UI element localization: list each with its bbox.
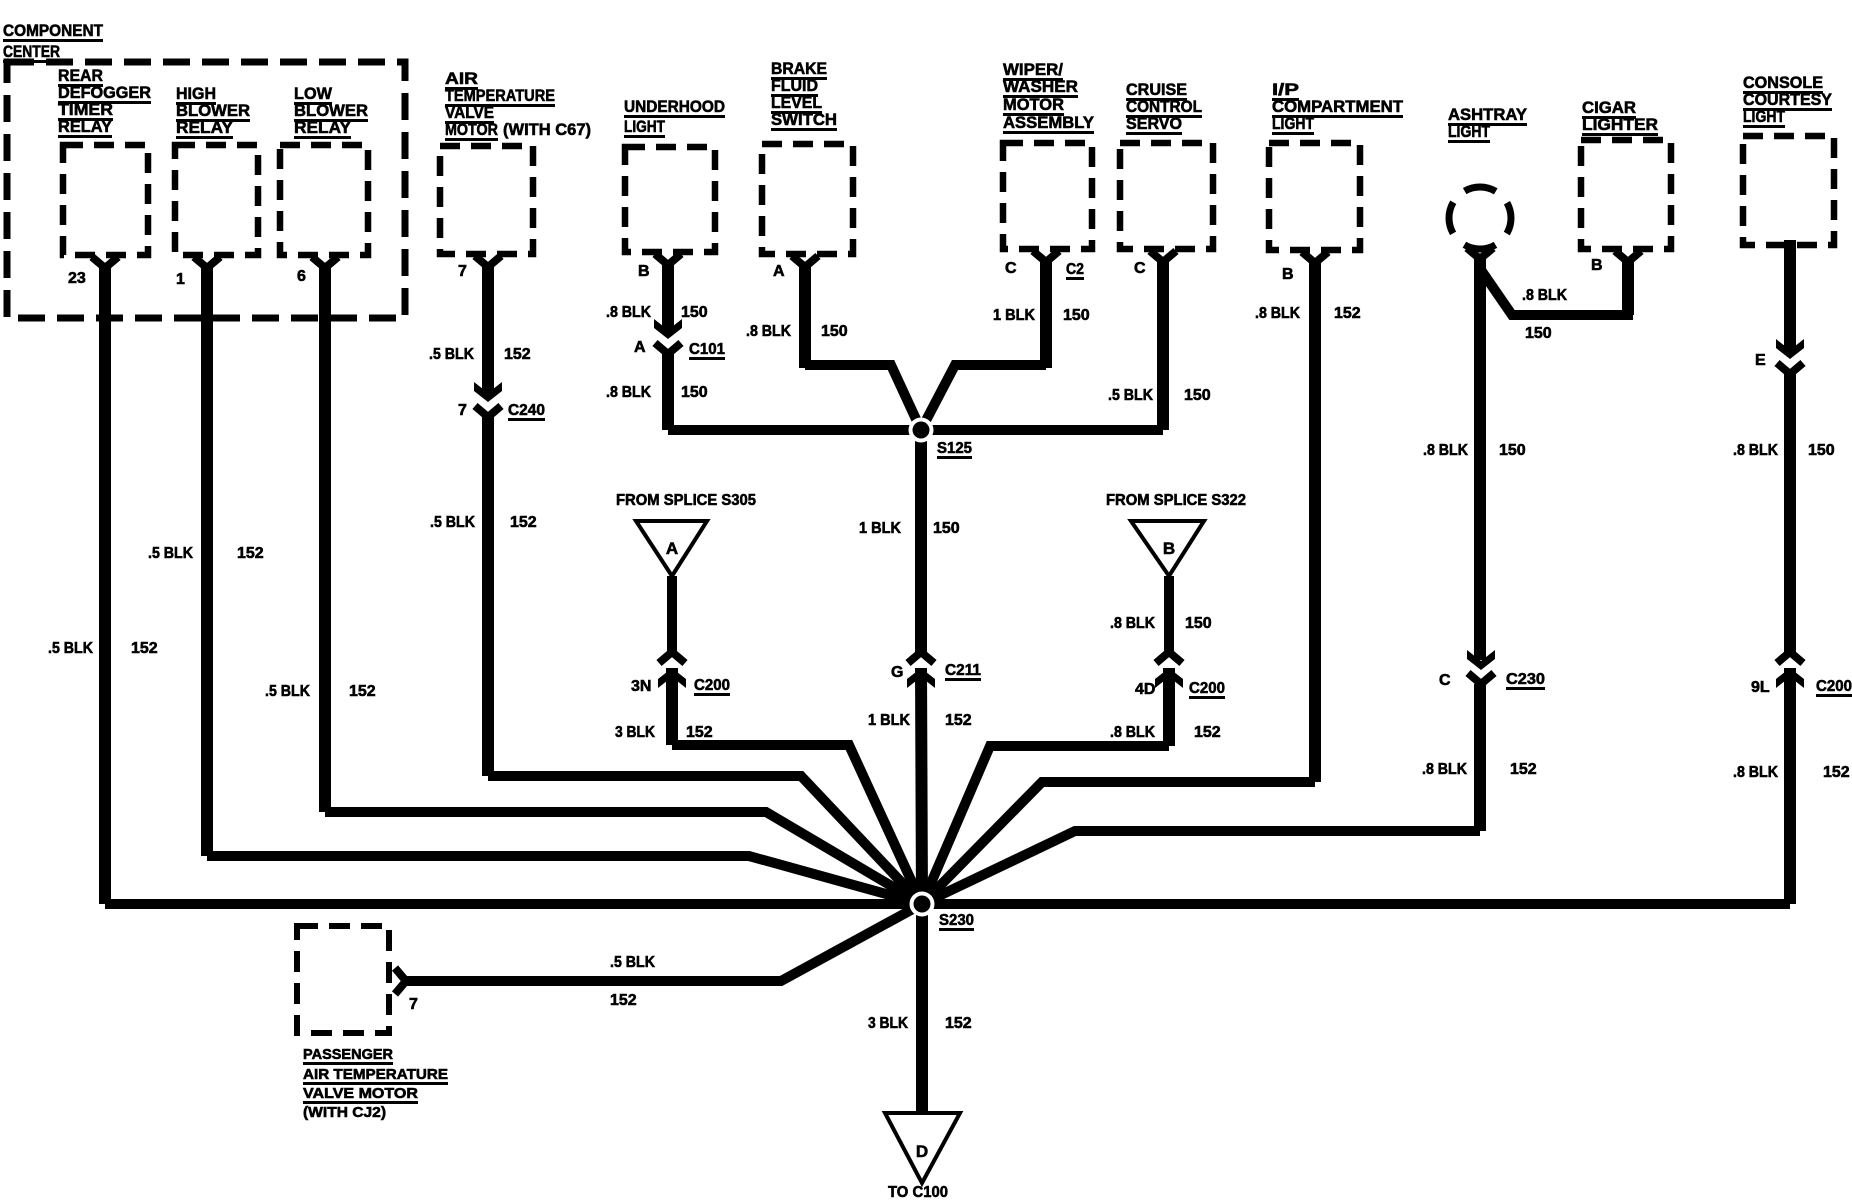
svg-text:.8 BLK: .8 BLK — [1110, 615, 1155, 632]
component BRAKE FLUID LEVEL SWITCH — [762, 59, 853, 254]
svg-text:.5 BLK: .5 BLK — [1108, 387, 1153, 404]
svg-text:152: 152 — [1823, 764, 1850, 781]
svg-text:B: B — [1591, 257, 1603, 274]
component I/P COMPARTMENT LIGHT — [1269, 80, 1404, 250]
pin 7 passenger — [395, 968, 418, 1013]
svg-text:C: C — [1134, 260, 1146, 277]
svg-text:.5 BLK: .5 BLK — [610, 954, 655, 971]
svg-text:150: 150 — [821, 323, 848, 340]
label .5 BLK 152 air temp upper — [429, 346, 531, 363]
component LOW BLOWER RELAY — [280, 84, 368, 255]
pin B cigar — [1591, 251, 1641, 274]
svg-text:152: 152 — [349, 683, 376, 700]
svg-text:MOTOR: MOTOR — [445, 120, 498, 139]
component CONSOLE COURTESY LIGHT — [1743, 73, 1834, 245]
svg-text:.8 BLK: .8 BLK — [1733, 442, 1778, 459]
wire rear defogger relay pin 23 to S230 (.5 BLK 152) — [105, 263, 922, 904]
pin 1 — [176, 257, 220, 288]
pin C cruise — [1134, 251, 1176, 277]
svg-text:E: E — [1755, 352, 1766, 369]
svg-text:.8 BLK: .8 BLK — [1733, 764, 1778, 781]
wire low blower relay pin 6 to S230 (.5 BLK 152) — [325, 263, 922, 904]
component ASHTRAY LIGHT (bulb symbol) — [1448, 105, 1528, 249]
pin A brake — [773, 256, 818, 280]
svg-text:150: 150 — [1525, 325, 1552, 342]
svg-text:WASHER: WASHER — [1003, 77, 1078, 96]
wire C230 to S230 (.8 BLK 152) — [922, 684, 1480, 904]
svg-text:CENTER: CENTER — [3, 42, 60, 61]
pin C wiper with connector C2 — [1005, 251, 1084, 280]
svg-text:SWITCH: SWITCH — [771, 110, 837, 129]
svg-text:LIGHT: LIGHT — [1743, 107, 1786, 126]
svg-text:RELAY: RELAY — [294, 118, 352, 137]
wire i/p compartment light pin B to S230 (.8 BLK 152) — [922, 258, 1315, 904]
svg-text:3 BLK: 3 BLK — [868, 1015, 908, 1032]
svg-text:LIGHTER: LIGHTER — [1582, 115, 1658, 134]
svg-text:7: 7 — [409, 996, 418, 1013]
wire underhood light pin B to C101 (.8 BLK 150) — [662, 260, 674, 331]
triangle B FROM SPLICE S322 — [1106, 492, 1246, 576]
wire cigar lighter pin B to ashtray wire (.8 BLK 150) — [1481, 258, 1633, 315]
wire C200 3N to S230 (3 BLK 152) — [672, 668, 922, 904]
label .8 BLK 150 cigar elbow — [1522, 287, 1567, 342]
svg-text:1: 1 — [176, 271, 185, 288]
svg-text:.8 BLK: .8 BLK — [606, 304, 651, 321]
svg-text:.8 BLK: .8 BLK — [1255, 305, 1300, 322]
svg-text:B: B — [1163, 539, 1175, 558]
svg-text:152: 152 — [237, 545, 264, 562]
svg-text:C200: C200 — [1816, 678, 1852, 695]
connector C200 pin 4D — [1135, 652, 1225, 699]
connector C200 pin 9L — [1751, 652, 1852, 697]
label .5 BLK 152 low blower — [265, 683, 376, 700]
label .8 BLK 152 i/p — [1255, 305, 1361, 322]
wire C211 to S230 (1 BLK 152) — [921, 668, 922, 904]
svg-text:S125: S125 — [937, 440, 972, 457]
component UNDERHOOD LIGHT — [624, 97, 725, 252]
svg-text:.8 BLK: .8 BLK — [746, 323, 791, 340]
label .8 BLK 152 C200 4D — [1110, 724, 1221, 741]
svg-text:150: 150 — [1499, 442, 1526, 459]
wire C200 4D to S230 (.8 BLK 152) — [922, 668, 1169, 904]
svg-text:G: G — [891, 664, 903, 681]
wire brake fluid level switch pin A to S125 (.8 BLK 150) — [805, 262, 921, 430]
svg-text:1 BLK: 1 BLK — [859, 520, 901, 537]
svg-text:150: 150 — [1184, 387, 1211, 404]
label .8 BLK 152 9L-S230 — [1733, 764, 1850, 781]
svg-text:152: 152 — [945, 1015, 972, 1032]
component AIR TEMPERATURE VALVE MOTOR (WITH C67) — [440, 69, 591, 254]
svg-text:C: C — [1439, 672, 1451, 689]
svg-text:(WITH C67): (WITH C67) — [503, 120, 591, 139]
svg-text:152: 152 — [1510, 761, 1537, 778]
svg-text:TO C100: TO C100 — [888, 1184, 948, 1200]
svg-text:152: 152 — [1194, 724, 1221, 741]
svg-text:.5 BLK: .5 BLK — [48, 640, 93, 657]
svg-text:FROM SPLICE S322: FROM SPLICE S322 — [1106, 492, 1246, 509]
svg-text:6: 6 — [297, 268, 306, 285]
svg-text:C101: C101 — [689, 341, 725, 358]
svg-text:C230: C230 — [1506, 671, 1545, 688]
svg-text:(WITH CJ2): (WITH CJ2) — [303, 1104, 386, 1121]
label .5 BLK 152 air temp lower — [430, 514, 537, 531]
label .8 BLK 150 console — [1733, 442, 1835, 459]
label .8 BLK 150 ashtray — [1423, 442, 1526, 459]
pin B i/p — [1282, 252, 1328, 283]
svg-text:FROM SPLICE S305: FROM SPLICE S305 — [616, 492, 756, 509]
triangle A FROM SPLICE S305 — [616, 492, 756, 576]
svg-text:C200: C200 — [694, 677, 730, 694]
wire S230 to triangle D (3 BLK 152) — [916, 904, 928, 1113]
svg-text:152: 152 — [610, 992, 637, 1009]
wire C101 to S125 (.8 BLK 150) — [668, 352, 921, 430]
svg-text:3N: 3N — [631, 678, 651, 695]
svg-text:.8 BLK: .8 BLK — [1423, 442, 1468, 459]
pin 23 — [68, 257, 118, 287]
label .8 BLK 152 C230-S230 — [1422, 761, 1537, 778]
pin 6 — [297, 257, 338, 285]
component WIPER/WASHER MOTOR ASSEMBLY — [1003, 60, 1095, 249]
svg-text:C2: C2 — [1066, 261, 1084, 278]
wire passenger air temp valve motor pin 7 to S230 (.5 BLK 152) — [406, 904, 922, 981]
connector C101 pin A — [634, 319, 725, 360]
svg-text:.8 BLK: .8 BLK — [606, 384, 651, 401]
wire cruise control servo pin C to S125 (.5 BLK 150) — [921, 257, 1163, 430]
label .5 BLK 152 high blower — [148, 545, 264, 562]
svg-text:C211: C211 — [945, 662, 981, 679]
svg-text:152: 152 — [945, 712, 972, 729]
svg-text:.5 BLK: .5 BLK — [148, 545, 193, 562]
wire console courtesy light to pin E — [1784, 240, 1796, 351]
svg-text:LIGHT: LIGHT — [624, 117, 665, 136]
component HIGH BLOWER RELAY — [175, 84, 258, 255]
component CIGAR LIGHTER — [1581, 98, 1671, 249]
wire triangle A to C200 3N (.8 BLK 150) — [667, 576, 677, 652]
splice S230 — [910, 892, 975, 932]
wire ashtray light to C230 (.8 BLK 150) — [1474, 257, 1486, 660]
svg-text:150: 150 — [1808, 442, 1835, 459]
connector C200 pin 3N — [631, 652, 730, 696]
svg-text:.5 BLK: .5 BLK — [429, 346, 474, 363]
label .5 BLK 150 cruise — [1108, 387, 1211, 404]
svg-text:7: 7 — [458, 263, 467, 280]
label .8 BLK 150 underhood upper — [606, 304, 708, 321]
connector C211 pin G — [891, 652, 981, 688]
wire pin E to C200 9L (.8 BLK 150) — [1784, 372, 1796, 652]
wire triangle B to C200 4D (.8 BLK 150) — [1164, 576, 1174, 652]
wire C240 to S230 (.5 BLK 152) — [488, 415, 922, 904]
label 1 BLK 150 S125-C211 — [859, 520, 960, 537]
svg-text:D: D — [916, 1142, 928, 1161]
svg-text:3 BLK: 3 BLK — [615, 724, 655, 741]
svg-text:AIR TEMPERATURE: AIR TEMPERATURE — [303, 1066, 448, 1083]
component PASSENGER AIR TEMPERATURE VALVE MOTOR (WITH CJ2) — [297, 926, 448, 1121]
triangle D TO C100 — [885, 1113, 960, 1200]
svg-text:150: 150 — [681, 384, 708, 401]
component REAR DEFOGGER TIMER RELAY — [58, 66, 151, 255]
svg-text:B: B — [638, 263, 650, 280]
pin B underhood — [638, 254, 681, 280]
svg-text:150: 150 — [933, 520, 960, 537]
svg-text:.5 BLK: .5 BLK — [265, 683, 310, 700]
svg-text:VALVE MOTOR: VALVE MOTOR — [303, 1085, 418, 1102]
label .8 BLK 150 underhood lower — [606, 384, 708, 401]
svg-text:C240: C240 — [508, 402, 545, 419]
svg-text:150: 150 — [1063, 307, 1090, 324]
wire S125 to C211 (1 BLK 150) — [915, 430, 927, 652]
component center box — [7, 62, 405, 318]
svg-text:1 BLK: 1 BLK — [868, 712, 910, 729]
connector C240 pin 7 — [458, 382, 545, 421]
label 1 BLK 150 wiper — [993, 307, 1090, 324]
wire C200 9L to S230 (.8 BLK 152) — [922, 668, 1790, 904]
svg-text:PASSENGER: PASSENGER — [303, 1046, 393, 1063]
svg-text:RELAY: RELAY — [58, 117, 113, 136]
svg-text:A: A — [666, 539, 678, 558]
component center title — [3, 21, 104, 63]
svg-text:UNDERHOOD: UNDERHOOD — [624, 97, 725, 116]
label .8 BLK 150 brake — [746, 323, 848, 340]
svg-text:.8 BLK: .8 BLK — [1422, 761, 1467, 778]
svg-text:7: 7 — [458, 402, 467, 419]
label 3 BLK 152 C200 3N — [615, 724, 713, 741]
pin ashtray — [1467, 248, 1493, 259]
svg-text:23: 23 — [68, 270, 86, 287]
svg-text:.8 BLK: .8 BLK — [1110, 724, 1155, 741]
svg-text:152: 152 — [131, 640, 158, 657]
svg-text:LIGHT: LIGHT — [1272, 114, 1315, 133]
svg-text:.8 BLK: .8 BLK — [1522, 287, 1567, 304]
component CRUISE CONTROL SERVO — [1120, 80, 1213, 249]
svg-text:152: 152 — [1334, 305, 1361, 322]
svg-text:152: 152 — [686, 724, 713, 741]
label 3 BLK 152 S230-C100 — [868, 1015, 972, 1032]
label .5 BLK 152 rear defogger — [48, 640, 158, 657]
svg-text:COMPONENT: COMPONENT — [3, 21, 104, 40]
svg-text:C200: C200 — [1189, 680, 1225, 697]
connector C230 pin C — [1439, 650, 1545, 690]
label .8 BLK 150 triangle B — [1110, 615, 1212, 632]
wire high blower relay pin 1 to S230 (.5 BLK 152) — [207, 263, 922, 904]
svg-text:1 BLK: 1 BLK — [993, 307, 1035, 324]
svg-text:152: 152 — [504, 346, 531, 363]
wire air temp valve motor pin 7 to C240 (.5 BLK 152) — [482, 262, 494, 394]
label 1 BLK 152 C211-S230 — [868, 712, 972, 729]
pin 7 — [458, 256, 501, 280]
svg-text:C: C — [1005, 260, 1017, 277]
svg-text:A: A — [634, 339, 646, 356]
svg-text:9L: 9L — [1751, 679, 1770, 696]
svg-text:SERVO: SERVO — [1126, 114, 1182, 133]
svg-text:ASSEMBLY: ASSEMBLY — [1003, 113, 1095, 132]
svg-text:150: 150 — [681, 304, 708, 321]
label .5 BLK 152 passenger — [610, 954, 655, 1009]
svg-text:150: 150 — [1185, 615, 1212, 632]
svg-text:152: 152 — [510, 514, 537, 531]
svg-text:A: A — [773, 263, 785, 280]
svg-text:4D: 4D — [1135, 681, 1155, 698]
wire wiper/washer motor pin C to S125 (1 BLK 150) — [921, 257, 1046, 430]
svg-text:LIGHT: LIGHT — [1448, 122, 1491, 141]
pin E console — [1755, 339, 1804, 374]
svg-text:S230: S230 — [939, 912, 974, 929]
svg-text:RELAY: RELAY — [176, 118, 234, 137]
splice S125 — [909, 418, 973, 460]
svg-text:MOTOR: MOTOR — [1003, 95, 1064, 114]
svg-text:B: B — [1282, 266, 1294, 283]
svg-text:.5 BLK: .5 BLK — [430, 514, 475, 531]
